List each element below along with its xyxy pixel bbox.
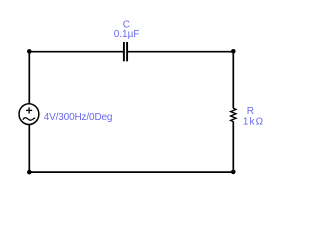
node top-left junction — [27, 49, 32, 54]
wire top-right horizontal — [128, 51, 235, 53]
wire top-left horizontal — [29, 51, 124, 53]
svg-text:1kΩ: 1kΩ — [243, 116, 264, 127]
node bottom-left junction — [27, 170, 32, 175]
node top-right junction — [231, 49, 236, 54]
wire bottom horizontal — [29, 171, 235, 173]
svg-text:4V/300Hz/0Deg: 4V/300Hz/0Deg — [44, 112, 113, 123]
resistor R zigzag — [231, 108, 236, 121]
node bottom-right junction — [231, 170, 236, 175]
svg-text:0.1µF: 0.1µF — [114, 29, 140, 40]
wire right vertical upper — [232, 51, 234, 108]
wire left vertical lower — [28, 124, 30, 173]
capacitor C — [124, 42, 127, 61]
AC source sine tilde — [23, 118, 35, 120]
AC source V1 circle — [19, 104, 39, 125]
wire right vertical lower — [232, 121, 234, 172]
AC source plus sign — [26, 107, 32, 113]
wire left vertical upper — [28, 51, 30, 104]
